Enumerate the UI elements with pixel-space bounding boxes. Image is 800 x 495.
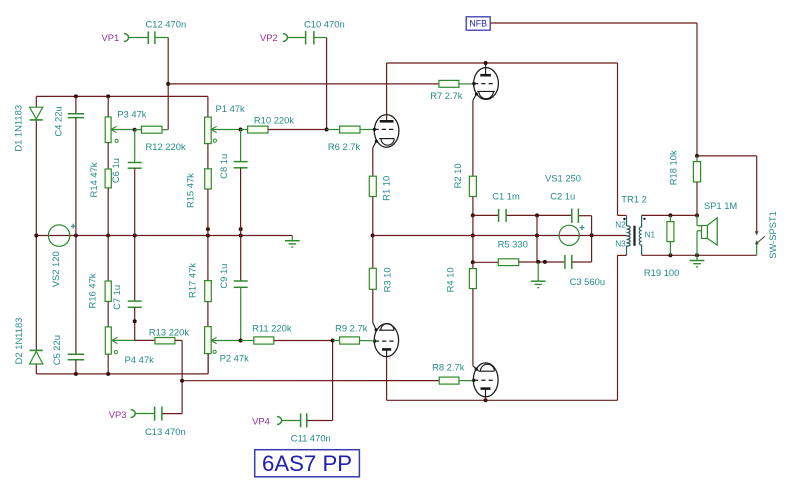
ground <box>537 262 539 281</box>
wire <box>756 156 758 233</box>
svg-text:VS2 120: VS2 120 <box>50 251 61 287</box>
wire <box>35 364 37 374</box>
wire <box>240 236 242 282</box>
capacitor C3 560u <box>564 255 566 269</box>
node junction <box>371 234 375 238</box>
node junction <box>206 227 210 231</box>
wire <box>75 118 77 236</box>
wire <box>107 301 109 327</box>
wire <box>618 214 627 216</box>
wire <box>642 214 697 216</box>
wire <box>372 148 374 177</box>
resistor R9 2.7k <box>340 337 360 344</box>
wire <box>156 37 169 39</box>
title box 6AS7 PP <box>255 450 360 477</box>
resistor R11 220k <box>254 337 274 344</box>
capacitor C2 1u <box>571 209 573 223</box>
svg-text:SP1 1M: SP1 1M <box>704 200 738 211</box>
diode D2 1N1183 <box>30 349 43 351</box>
node junction <box>535 213 539 217</box>
capacitor C5 22u <box>68 353 84 355</box>
svg-text:R8 2.7k: R8 2.7k <box>432 361 465 372</box>
wire <box>162 129 168 131</box>
wire <box>241 129 248 131</box>
wire <box>459 380 474 382</box>
transformer TR1 primary N3 <box>627 236 631 255</box>
wire <box>36 373 208 375</box>
svg-text:C7 1u: C7 1u <box>111 285 122 310</box>
resistor R1 10 <box>369 176 376 196</box>
speaker SP1 1M <box>696 215 698 225</box>
svg-text:C10 470n: C10 470n <box>304 18 345 29</box>
svg-text:R7 2.7k: R7 2.7k <box>430 90 463 101</box>
wire <box>333 340 340 342</box>
wire <box>107 96 109 117</box>
connector VP2 <box>283 34 288 42</box>
svg-text:C3 560u: C3 560u <box>570 276 605 287</box>
svg-text:P1 47k: P1 47k <box>216 103 245 114</box>
node junction <box>106 234 110 238</box>
wire <box>697 155 757 157</box>
wire <box>591 235 593 262</box>
net label NFB <box>466 17 490 30</box>
resistor R19 100 <box>667 222 674 242</box>
resistor R5 330 <box>498 259 518 266</box>
node junction <box>331 339 335 343</box>
wire <box>207 236 209 281</box>
node junction <box>133 234 137 238</box>
wire <box>572 261 591 263</box>
wire <box>536 215 538 235</box>
wire <box>642 254 757 256</box>
wire <box>327 129 340 131</box>
connector VP4 <box>277 417 282 425</box>
node junction <box>133 128 137 132</box>
node junction <box>74 372 78 376</box>
wire <box>36 235 292 237</box>
capacitor C9 1u <box>234 280 248 282</box>
wire <box>107 354 109 374</box>
connector VP1 <box>124 34 129 42</box>
node junction <box>239 128 243 132</box>
resistor R8 2.7k <box>439 377 459 384</box>
triode V1 <box>374 115 399 148</box>
connector VP3 <box>131 410 136 418</box>
wire <box>288 37 305 39</box>
svg-text:R3 10: R3 10 <box>381 267 392 292</box>
wire <box>75 236 77 355</box>
wire <box>207 96 209 117</box>
wire <box>386 63 388 120</box>
wire <box>135 413 154 415</box>
node junction <box>239 339 243 343</box>
wire <box>507 214 572 216</box>
triode V3 <box>374 324 398 357</box>
wire <box>387 399 618 401</box>
wire <box>163 413 183 415</box>
transformer secondary N1 <box>639 215 641 255</box>
capacitor C10 470n <box>305 31 307 45</box>
wire <box>472 289 474 366</box>
wire <box>519 261 565 263</box>
node junction <box>668 213 672 217</box>
wire <box>207 302 209 327</box>
wire <box>591 216 593 236</box>
svg-text:C6 1u: C6 1u <box>110 158 121 183</box>
wire <box>134 168 136 235</box>
svg-text:R13 220k: R13 220k <box>149 326 189 337</box>
svg-text:R14 47k: R14 47k <box>88 162 99 197</box>
wire <box>107 143 109 169</box>
wire <box>472 215 474 235</box>
resistor R17 47k <box>205 281 212 302</box>
resistor R12 220k <box>141 126 162 133</box>
phase dot <box>643 218 645 220</box>
voltage source VS2 120 <box>48 225 69 246</box>
wire <box>386 357 388 401</box>
wire <box>617 63 619 215</box>
svg-text:R17 47k: R17 47k <box>187 263 198 298</box>
node junction <box>106 94 110 98</box>
resistor R16 47k <box>105 281 111 301</box>
transformer core <box>633 226 635 246</box>
triode U4 <box>473 363 498 397</box>
node junction <box>74 234 78 238</box>
wire <box>315 37 327 39</box>
wire <box>35 96 37 107</box>
wire <box>207 189 209 236</box>
node junction <box>325 128 329 132</box>
wire <box>618 254 627 256</box>
phase dot <box>623 218 625 220</box>
wire <box>459 83 474 85</box>
svg-text:VS1 250: VS1 250 <box>545 172 581 183</box>
node junction <box>668 253 672 257</box>
node junction <box>695 253 699 257</box>
wire <box>207 354 209 374</box>
svg-text:P3 47k: P3 47k <box>117 108 146 119</box>
svg-text:VP3: VP3 <box>109 409 127 420</box>
svg-text:C5 22u: C5 22u <box>51 335 62 365</box>
capacitor C8 1u <box>234 161 248 163</box>
capacitor C4 22u <box>68 113 84 115</box>
svg-text:SW-SPST1: SW-SPST1 <box>767 211 778 259</box>
wire <box>240 168 242 236</box>
svg-text:N2: N2 <box>615 220 626 229</box>
wire <box>326 38 328 130</box>
node junction <box>74 94 78 98</box>
wire <box>36 95 208 97</box>
svg-text:R4 10: R4 10 <box>445 267 456 292</box>
wire <box>472 100 474 176</box>
triode U2 <box>474 68 499 100</box>
svg-text:C2 1u: C2 1u <box>550 191 575 202</box>
wire <box>332 341 334 421</box>
capacitor C11 470n <box>300 413 302 427</box>
wire <box>107 236 109 282</box>
svg-text:N3: N3 <box>615 240 626 249</box>
svg-text:R1 10: R1 10 <box>380 176 391 201</box>
node junction <box>536 260 540 264</box>
wire <box>274 340 333 342</box>
wire <box>579 215 592 217</box>
svg-text:R11 220k: R11 220k <box>252 323 292 334</box>
svg-text:R6 2.7k: R6 2.7k <box>328 141 361 152</box>
svg-text:R2 10: R2 10 <box>452 163 463 188</box>
capacitor C1 1m <box>498 209 500 222</box>
svg-text:R12 220k: R12 220k <box>146 141 186 152</box>
wire <box>134 130 136 163</box>
node junction <box>695 213 699 217</box>
wire <box>536 236 538 263</box>
wire <box>372 197 374 236</box>
resistor R13 220k <box>155 338 175 344</box>
resistor R18 10k <box>693 162 700 182</box>
resistor R7 2.7k <box>439 80 459 87</box>
svg-text:R9 2.7k: R9 2.7k <box>335 323 368 334</box>
wire <box>129 37 148 39</box>
node junction <box>543 260 547 264</box>
wire <box>669 215 671 221</box>
wire <box>308 420 333 422</box>
resistor R14 47k <box>105 169 111 188</box>
node junction <box>166 82 170 86</box>
node junction <box>239 227 243 231</box>
wire <box>387 62 618 64</box>
wire <box>207 144 209 169</box>
svg-text:C9 1u: C9 1u <box>218 264 229 289</box>
wire <box>107 188 109 236</box>
wire <box>696 182 698 216</box>
wire <box>696 156 698 162</box>
svg-text:6AS7 PP: 6AS7 PP <box>262 451 352 476</box>
node junction <box>590 233 594 237</box>
svg-text:R15 47k: R15 47k <box>184 173 195 208</box>
wire <box>473 366 479 371</box>
potentiometer P4 47k <box>105 327 111 354</box>
voltage source VS1 250 <box>559 225 579 245</box>
node junction <box>471 213 475 217</box>
node junction <box>106 372 110 376</box>
svg-text:R16 47k: R16 47k <box>87 273 98 308</box>
wire <box>696 23 698 156</box>
potentiometer P1 47k <box>205 117 212 144</box>
resistor R3 10 <box>369 268 376 289</box>
wire <box>372 289 374 322</box>
svg-text:P4 47k: P4 47k <box>125 354 154 365</box>
svg-text:P2 47k: P2 47k <box>220 353 249 364</box>
wire <box>182 380 439 382</box>
svg-text:NFB: NFB <box>469 19 487 29</box>
node junction <box>239 234 243 238</box>
wire <box>360 340 375 342</box>
svg-text:VP4: VP4 <box>252 415 270 426</box>
wire <box>75 360 77 374</box>
wire <box>268 129 327 131</box>
svg-text:VP2: VP2 <box>260 32 278 43</box>
svg-text:C13 470n: C13 470n <box>145 426 186 437</box>
ground <box>291 236 293 241</box>
diode D1 1N1183 <box>30 107 43 119</box>
node junction <box>34 234 38 238</box>
resistor R6 2.7k <box>340 126 360 133</box>
resistor R2 10 <box>469 176 476 196</box>
resistor R15 47k <box>205 169 212 189</box>
wire <box>175 339 182 341</box>
wire <box>372 236 374 269</box>
wire <box>485 397 487 400</box>
wire <box>240 287 242 340</box>
node junction <box>471 260 475 264</box>
capacitor C6 1u <box>128 162 142 164</box>
node junction <box>695 154 699 158</box>
svg-text:C1 1m: C1 1m <box>492 191 520 202</box>
switch SW-SPST1 <box>755 231 759 235</box>
wire <box>241 340 254 342</box>
svg-text:C8 1u: C8 1u <box>218 154 229 179</box>
wire <box>181 340 183 413</box>
wire <box>472 197 474 216</box>
svg-text:VP1: VP1 <box>102 32 120 43</box>
wire <box>282 420 300 422</box>
wire <box>168 83 439 85</box>
potentiometer P2 47k <box>205 327 212 354</box>
wire <box>373 235 627 237</box>
wire <box>360 129 374 131</box>
wire <box>490 22 697 24</box>
wire <box>240 130 242 162</box>
svg-text:N1: N1 <box>645 231 656 240</box>
svg-text:R18 10k: R18 10k <box>668 150 679 185</box>
node junction <box>484 61 488 65</box>
wire <box>669 242 671 256</box>
transformer TR1 2 primary N2 <box>627 215 631 236</box>
svg-text:C11 470n: C11 470n <box>291 432 331 443</box>
wire <box>473 261 498 263</box>
capacitor C13 470n <box>154 407 156 421</box>
wire <box>134 236 136 302</box>
potentiometer P3 47k <box>105 117 111 143</box>
svg-text:D1 1N1183: D1 1N1183 <box>12 105 23 152</box>
capacitor C12 470n <box>147 31 149 44</box>
svg-text:TR1 2: TR1 2 <box>621 194 647 205</box>
wire <box>472 236 474 263</box>
wire <box>135 129 142 131</box>
node junction <box>180 379 184 383</box>
node junction <box>133 319 137 323</box>
wire <box>35 120 37 236</box>
wire <box>472 262 474 268</box>
svg-text:R5 330: R5 330 <box>498 239 528 250</box>
wire <box>473 214 498 216</box>
wire <box>75 96 77 113</box>
svg-text:C4 22u: C4 22u <box>53 106 64 136</box>
node junction <box>206 234 210 238</box>
svg-text:C12 470n: C12 470n <box>146 18 187 29</box>
wire <box>617 255 619 400</box>
svg-text:R19 100: R19 100 <box>644 267 679 278</box>
node junction <box>471 234 475 238</box>
wire <box>135 339 155 341</box>
wire <box>134 307 136 340</box>
wire <box>373 323 376 330</box>
svg-text:R10 220k: R10 220k <box>254 115 294 126</box>
resistor R10 220k <box>248 126 268 133</box>
node junction <box>535 234 539 238</box>
ground <box>696 255 698 260</box>
capacitor C7 1u <box>128 300 142 302</box>
wire <box>207 353 209 374</box>
wire <box>35 236 37 351</box>
wire <box>167 38 169 130</box>
node junction <box>484 398 488 402</box>
svg-text:D2 1N1183: D2 1N1183 <box>13 318 24 365</box>
resistor R4 10 <box>469 269 476 289</box>
